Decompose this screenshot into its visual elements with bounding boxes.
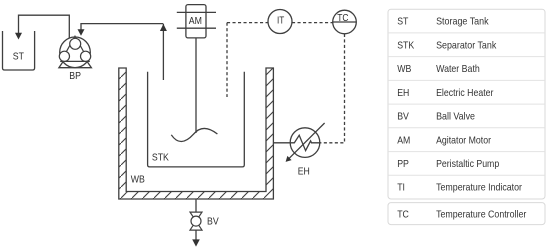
outlet arrow (195, 230, 197, 240)
svg-text:AM: AM (397, 134, 410, 146)
svg-text:BV: BV (207, 216, 219, 228)
ball valve BV (190, 212, 202, 230)
dashed wire IT to TC (292, 22, 333, 24)
svg-text:TC: TC (397, 208, 409, 220)
svg-text:Ball Valve: Ball Valve (436, 111, 475, 123)
svg-text:PP: PP (397, 158, 409, 170)
svg-text:TC: TC (337, 12, 349, 24)
liquid wave in STK (171, 128, 217, 141)
svg-text:BV: BV (397, 111, 409, 123)
svg-text:WB: WB (131, 173, 145, 185)
svg-text:Peristaltic Pump: Peristaltic Pump (436, 158, 499, 170)
svg-text:Separator Tank: Separator Tank (436, 39, 497, 51)
svg-text:AM: AM (189, 15, 202, 27)
legend table card 2 (388, 203, 545, 225)
svg-text:EH: EH (298, 165, 310, 177)
peristaltic pump BP (59, 36, 92, 67)
svg-text:Water Bath: Water Bath (436, 63, 480, 75)
svg-text:ST: ST (13, 51, 25, 63)
svg-text:STK: STK (152, 151, 169, 163)
dashed wire TC to EH (320, 34, 345, 143)
svg-text:Temperature Indicator: Temperature Indicator (436, 182, 522, 194)
water bath WB walls (119, 68, 274, 199)
agitator motor AM (177, 5, 216, 38)
storage tank ST (3, 31, 35, 70)
wire STK to BP inlet (81, 24, 163, 80)
agitator shaft (195, 38, 197, 133)
arrow into ST (15, 33, 22, 40)
svg-text:Temperature Controller: Temperature Controller (436, 208, 527, 220)
electric heater EH (273, 123, 324, 162)
instrument IT (268, 10, 292, 34)
separator tank STK (148, 72, 245, 167)
svg-text:ST: ST (397, 16, 409, 28)
svg-text:EH: EH (397, 87, 409, 99)
wire BP outlet to ST (19, 15, 70, 38)
drain pipe (195, 199, 197, 212)
dashed wire to IT (227, 22, 268, 24)
arrow into BP (78, 29, 85, 36)
arrow up at corner (160, 24, 167, 31)
svg-text:TI: TI (397, 182, 405, 194)
svg-text:STK: STK (397, 39, 414, 51)
svg-text:BP: BP (69, 70, 81, 82)
dashed probe from IT into STK (226, 23, 228, 97)
svg-text:WB: WB (397, 63, 411, 75)
svg-text:Electric Heater: Electric Heater (436, 87, 494, 99)
legend table card 1 (388, 9, 545, 199)
svg-text:Storage Tank: Storage Tank (436, 16, 489, 28)
svg-text:Agitator Motor: Agitator Motor (436, 134, 491, 146)
svg-text:IT: IT (277, 15, 285, 27)
instrument TC (333, 10, 357, 34)
